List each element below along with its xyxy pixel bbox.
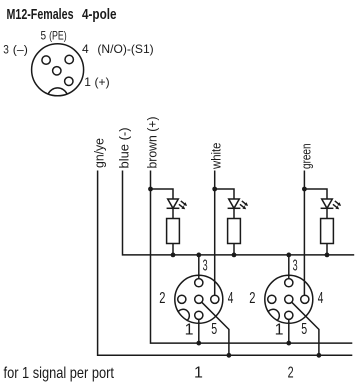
junction white/LED2 [212, 187, 217, 192]
port 2 pin 3 [285, 279, 293, 287]
port 1 female face [175, 275, 223, 323]
wire R3 to minus bus [326, 244, 328, 255]
port 2 female face [265, 275, 313, 323]
wire port2 pin5 to PE bus [292, 302, 319, 355]
label 1 (+) [84, 75, 109, 89]
port 1 pin 2 [178, 295, 186, 303]
svg-text:5: 5 [301, 321, 307, 338]
svg-text:5: 5 [211, 321, 217, 338]
port 2 pin 5 [285, 295, 293, 303]
wire LED2 branch [215, 189, 234, 199]
wire brown vertical + plus bus [151, 171, 353, 344]
svg-text:gn/ye: gn/ye [93, 138, 107, 168]
wire port1 pin3 to minus bus [198, 255, 200, 279]
LED V3 [321, 199, 342, 209]
svg-text:2: 2 [159, 290, 165, 307]
wire R1 to minus bus [172, 244, 174, 255]
port 1 keyway notch [178, 309, 190, 320]
junction port1 pin1/plus bus [196, 341, 201, 346]
svg-text:3: 3 [203, 258, 208, 275]
port 1 pin 1 [195, 311, 203, 319]
port 1 pin 3 [195, 279, 203, 287]
X1 keyway notch [48, 88, 67, 94]
resistor R2 [228, 219, 241, 244]
wire LED3 branch [304, 189, 327, 199]
port 2 pin 1 [285, 311, 293, 319]
wire port1 pin1 to plus bus [198, 319, 200, 343]
junction port2 pin5/PE bus [317, 353, 322, 358]
port 1 pin 5 [195, 295, 203, 303]
port 2 keyway notch [268, 309, 280, 320]
label 3 (-) [3, 43, 28, 57]
svg-text:4: 4 [82, 42, 89, 56]
wire port1 pin5 to PE bus [202, 302, 229, 355]
label 5 (PE) [41, 28, 67, 42]
wire LED2 to R2 [233, 208, 235, 218]
title M12-Females 4-pole [7, 6, 117, 23]
svg-text:4: 4 [318, 290, 324, 307]
junction R2/minus bus [232, 253, 237, 258]
svg-text:3: 3 [3, 43, 9, 57]
resistor R3 [321, 219, 334, 244]
wire port2 pin3 to minus bus [288, 255, 290, 279]
LED V1 [167, 199, 188, 209]
wire port2 pin1 to plus bus [288, 319, 290, 343]
port 1 pin 4 [211, 295, 219, 303]
resistor R1 [167, 219, 180, 244]
X1 pin 1 [65, 77, 73, 85]
port 2 pin 2 [268, 295, 276, 303]
junction port1 pin3/minus bus [196, 253, 201, 258]
svg-text:1: 1 [275, 321, 284, 338]
wire gn/ye vertical + bottom PE bus [98, 171, 353, 356]
svg-text:white: white [210, 142, 224, 169]
svg-text:(PE): (PE) [49, 28, 67, 42]
port 2 pin 4 [301, 295, 309, 303]
wire blue vertical + minus bus [123, 171, 355, 255]
connector X1 female face [32, 44, 84, 96]
X1 pin 3 [42, 56, 50, 64]
svg-text:1: 1 [185, 321, 194, 338]
svg-text:(N/O)-(S1): (N/O)-(S1) [97, 42, 153, 56]
label 4 (N/O)-(S1) [82, 42, 154, 56]
svg-text:brown (+): brown (+) [146, 117, 160, 169]
junction R1/minus bus [171, 253, 176, 258]
wire LED3 to R3 [326, 208, 328, 218]
junction brown/LED1 [148, 187, 153, 192]
junction port1 pin5/PE bus [227, 353, 232, 358]
svg-text:blue (-): blue (-) [118, 128, 132, 169]
svg-text:3: 3 [293, 258, 298, 275]
svg-text:(–): (–) [13, 43, 28, 57]
svg-text:5: 5 [41, 28, 47, 42]
svg-text:1: 1 [84, 75, 91, 89]
junction port2 pin1/plus bus [286, 341, 291, 346]
svg-text:M12-Females: M12-Females [7, 6, 74, 23]
svg-text:4: 4 [228, 290, 234, 307]
svg-text:1: 1 [194, 364, 203, 381]
wire green to port 2 pin 4 [303, 171, 305, 295]
svg-text:2: 2 [249, 290, 255, 307]
wire LED1 branch [151, 189, 174, 199]
LED V2 [228, 199, 249, 209]
wire R2 to minus bus [233, 244, 235, 255]
junction green/LED3 [302, 187, 307, 192]
junction port2 pin3/minus bus [286, 253, 291, 258]
wire LED1 to R1 [172, 208, 174, 218]
svg-text:green: green [299, 143, 313, 169]
wire white to port 1 pin 4 [214, 171, 216, 295]
junction R3/minus bus [325, 253, 330, 258]
X1 pin 4 [65, 55, 73, 63]
X1 pin 5 [53, 67, 61, 75]
svg-text:(+): (+) [95, 75, 110, 89]
svg-text:2: 2 [288, 364, 294, 381]
svg-text:4-pole: 4-pole [82, 6, 117, 23]
svg-text:for 1 signal per port: for 1 signal per port [4, 365, 115, 382]
